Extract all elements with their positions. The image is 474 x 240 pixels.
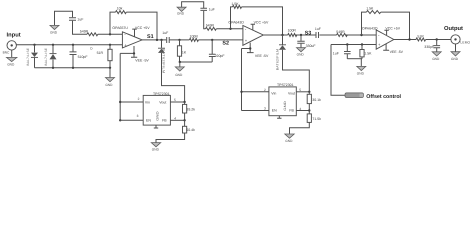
- capacitor C1 1uF (gain network stage1): [69, 18, 83, 22]
- wire U4 EN pin3: [119, 114, 143, 121]
- ground under 330pF: [432, 52, 441, 61]
- wire output stage2 line: [263, 34, 376, 36]
- node dot C510: [72, 44, 74, 46]
- svg-text:1uF: 1uF: [77, 18, 83, 22]
- node dot rail C510: [72, 67, 74, 69]
- svg-text:1uF: 1uF: [315, 27, 321, 31]
- svg-text:LEMO: LEMO: [460, 40, 470, 44]
- capacitor C2 1uF series stage1: [162, 31, 169, 43]
- svg-text:Input: Input: [7, 33, 21, 39]
- wire input line to op-amp +: [16, 44, 122, 46]
- ground top stage2: [177, 7, 186, 15]
- node dot rail: [109, 67, 111, 69]
- svg-text:2: 2: [138, 97, 140, 101]
- wire 549R to op-amp - input: [98, 33, 123, 35]
- connector J1 BNC: [3, 41, 17, 55]
- wire BNC stub to ground: [11, 50, 13, 57]
- output label: [444, 25, 463, 32]
- ground stage1 output shunt: [175, 62, 184, 77]
- svg-text:GND: GND: [357, 72, 365, 76]
- svg-text:60.4k: 60.4k: [186, 128, 195, 132]
- ground U5: [285, 134, 294, 143]
- svg-text:BAT62/FILM: BAT62/FILM: [276, 49, 280, 71]
- svg-text:GND: GND: [432, 57, 440, 61]
- svg-text:71.5k: 71.5k: [312, 117, 321, 121]
- wire output stage3 line: [394, 39, 451, 41]
- capacitor C4 1uF (gain network stage2): [200, 7, 214, 11]
- svg-text:100R: 100R: [190, 35, 199, 39]
- resistor R51 shunt 51R: [97, 45, 113, 68]
- op-amp U1 OPA657U: [112, 26, 150, 120]
- wire rail to ground: [109, 68, 111, 78]
- wire U4 Vout pin5: [170, 98, 184, 102]
- svg-text:VEE -5V: VEE -5V: [135, 58, 149, 62]
- node dot D1: [33, 44, 35, 46]
- resistor R16 71.5k: [307, 111, 321, 123]
- svg-text:GND: GND: [283, 100, 287, 110]
- regulator U5 TPS72301: [269, 83, 296, 116]
- svg-text:GND: GND: [451, 57, 459, 61]
- wire feedback2 right leg: [242, 7, 283, 35]
- op-amp U2 OPA643D: [228, 21, 269, 111]
- svg-text:S2: S2: [222, 40, 229, 46]
- node dot diode leg U4: [183, 101, 185, 103]
- svg-text:S3: S3: [305, 31, 312, 37]
- wire output stage1 line: [142, 39, 189, 41]
- svg-text:VCC +5V: VCC +5V: [254, 21, 269, 25]
- node dot gnd rail: [179, 61, 181, 63]
- node dot clamp1: [160, 39, 162, 41]
- svg-text:10k: 10k: [117, 6, 123, 10]
- svg-text:Vin: Vin: [145, 100, 150, 104]
- op-amp U3 OPA643D: [362, 26, 404, 54]
- node S2 label: [222, 40, 229, 46]
- svg-text:GND: GND: [7, 62, 15, 66]
- ground under BNC: [7, 57, 17, 66]
- wire C4 down to 549R stage2: [204, 11, 206, 29]
- ground under LEMO: [451, 52, 460, 61]
- wire feedback1 right leg to S1: [126, 12, 157, 40]
- svg-text:4: 4: [299, 107, 301, 111]
- wire C1 down to 549R: [73, 21, 88, 35]
- connector offset control: [345, 93, 402, 100]
- resistor R7 1.5K feedback stage2: [231, 2, 241, 8]
- svg-text:Vin: Vin: [271, 92, 276, 96]
- resistor R8 100R series stage2: [288, 29, 297, 37]
- svg-text:4: 4: [174, 117, 176, 121]
- svg-text:39.2k: 39.2k: [186, 107, 195, 111]
- svg-text:BAT62/FILM: BAT62/FILM: [161, 49, 165, 74]
- wire U4 divider to ground: [156, 133, 185, 143]
- wire offset control leg: [331, 45, 345, 96]
- svg-text:1K: 1K: [182, 51, 187, 55]
- svg-text:3: 3: [264, 106, 266, 110]
- diode D3 clamp to VEE: [158, 40, 185, 102]
- node dot R51: [109, 44, 111, 46]
- node dot FB U5: [308, 109, 310, 111]
- svg-text:GND: GND: [105, 83, 113, 87]
- svg-text:VCC +5V: VCC +5V: [135, 26, 150, 30]
- resistor R2 549R stage1: [80, 30, 98, 36]
- capacitor C3 220pF shunt: [209, 40, 225, 62]
- svg-text:VEE -5V: VEE -5V: [390, 50, 404, 54]
- svg-text:BAL74-ISE: BAL74-ISE: [26, 48, 30, 66]
- svg-text:Output: Output: [444, 25, 463, 32]
- svg-text:549R: 549R: [336, 30, 345, 34]
- svg-text:EN: EN: [146, 119, 151, 123]
- wire bias rail: [347, 58, 362, 60]
- node dot feedback3 out: [408, 38, 410, 40]
- svg-text:100R: 100R: [288, 29, 297, 33]
- wire feedback1 left leg: [110, 12, 116, 34]
- resistor R15 30.1k: [307, 92, 321, 111]
- svg-text:GND: GND: [50, 31, 58, 35]
- svg-text:OPA643D: OPA643D: [362, 26, 378, 30]
- svg-text:3: 3: [137, 114, 139, 118]
- node dot feedback2: [229, 28, 231, 30]
- svg-text:30.1k: 30.1k: [312, 98, 321, 102]
- wire ground up and over to C1: [55, 11, 73, 25]
- ground top-left stage1: [50, 25, 59, 34]
- svg-text:GND: GND: [175, 73, 183, 77]
- svg-text:TPS72301: TPS72301: [277, 83, 294, 87]
- wire U5 FB pin4: [296, 107, 309, 111]
- svg-text:BAL74-ISE: BAL74-ISE: [44, 48, 48, 66]
- svg-text:GND: GND: [155, 110, 159, 120]
- svg-text:1uF: 1uF: [209, 7, 215, 11]
- capacitor C5 330uF shunt: [297, 35, 315, 48]
- capacitor C7 1uF bias: [333, 45, 351, 59]
- node dot 330uF: [300, 34, 302, 36]
- resistor R4 1K shunt: [177, 40, 186, 62]
- svg-text:1.5K: 1.5K: [364, 52, 372, 56]
- svg-text:5: 5: [299, 88, 301, 92]
- wire 549R to op-amp2 - input: [216, 28, 243, 30]
- wire shunt rail to 220pF: [180, 61, 213, 63]
- wire U5 divider to ground: [290, 122, 310, 133]
- diode D2 BAL74 (pointing up): [44, 45, 57, 68]
- resistor R3 10k feedback stage1: [116, 6, 127, 13]
- capacitor C510 510pF: [70, 45, 88, 68]
- resistor R5 100R series stage1: [189, 35, 243, 42]
- node dot feedback1: [109, 33, 111, 35]
- node dot R11: [361, 43, 363, 45]
- svg-text:330uF: 330uF: [306, 44, 316, 48]
- svg-text:1.5K: 1.5K: [366, 7, 374, 11]
- svg-text:510pF: 510pF: [78, 55, 88, 59]
- wire U5 Vin pin2: [242, 88, 269, 92]
- U4 gnd pad stub: [154, 125, 158, 128]
- svg-text:EN: EN: [272, 108, 277, 112]
- capacitor C6 1uF series stage3: [315, 27, 321, 38]
- svg-text:51R: 51R: [97, 51, 104, 55]
- svg-text:Vout: Vout: [288, 92, 295, 96]
- resistor R13 39.2k: [183, 102, 196, 120]
- svg-text:51R: 51R: [417, 35, 424, 39]
- svg-text:BNC: BNC: [3, 51, 10, 55]
- svg-text:VEE -5V: VEE -5V: [255, 54, 269, 58]
- resistor R12 51R series output: [416, 35, 426, 42]
- capacitor C8 330pF shunt: [424, 40, 440, 52]
- svg-text:GND: GND: [177, 12, 185, 16]
- ground under 51R: [105, 78, 114, 87]
- wire LEMO stub to ground: [455, 44, 457, 52]
- node dot diode leg U5: [308, 91, 310, 93]
- wire U5 EN pin3: [242, 106, 269, 110]
- svg-text:TPS72301: TPS72301: [153, 92, 170, 96]
- node S2 dot: [211, 39, 213, 41]
- svg-text:220pF: 220pF: [215, 54, 225, 58]
- resistor R11 1.5K bias: [360, 45, 372, 59]
- node S1: [147, 34, 158, 41]
- wire feedback2 left leg: [231, 7, 233, 29]
- node dot VEE U4: [119, 101, 121, 103]
- input label: [7, 33, 21, 39]
- svg-text:1uF: 1uF: [162, 31, 168, 35]
- resistor R10 1.5K feedback stage3: [366, 7, 381, 14]
- node dot 330pF: [436, 38, 438, 40]
- svg-text:Vout: Vout: [159, 100, 166, 104]
- ground bias network: [357, 59, 366, 76]
- wire U5 Vout pin5: [296, 88, 309, 92]
- node label D: [90, 46, 93, 50]
- svg-text:Offset control: Offset control: [366, 94, 401, 100]
- node dot C7: [346, 43, 348, 45]
- wire ground to C4: [182, 2, 204, 8]
- wire feedback3 left leg: [362, 12, 367, 35]
- svg-text:S1: S1: [147, 34, 154, 40]
- wire U4 FB pin4: [170, 117, 184, 121]
- resistor R14 60.4k: [183, 120, 196, 133]
- resistor R6 549R stage2: [206, 24, 217, 31]
- svg-text:GND: GND: [297, 53, 305, 57]
- wire U4 Vin pin2: [120, 97, 143, 102]
- wire bottom rail input clamp: [35, 67, 111, 69]
- svg-text:GND: GND: [152, 147, 160, 151]
- node dot R1K: [178, 39, 180, 41]
- svg-text:330pF: 330pF: [424, 45, 434, 49]
- node dot clamp2: [281, 34, 283, 36]
- node dot D2: [52, 44, 54, 46]
- resistor R9 549R stage3: [336, 30, 347, 37]
- ground under 330uF: [297, 48, 306, 57]
- svg-text:FB: FB: [289, 108, 294, 112]
- node dot FB U4: [183, 119, 185, 121]
- node dot feedback3: [360, 34, 362, 36]
- svg-text:OPA657U: OPA657U: [112, 26, 128, 30]
- svg-text:GND: GND: [285, 139, 293, 143]
- svg-text:FB: FB: [162, 119, 167, 123]
- wire + input line stage3: [331, 44, 376, 46]
- svg-text:549R: 549R: [206, 24, 215, 28]
- node S3 label: [305, 31, 312, 37]
- wire feedback3 right leg: [381, 12, 410, 39]
- svg-text:549R: 549R: [80, 30, 89, 34]
- diode D1 BAL74 (pointing down): [26, 45, 38, 68]
- node dot VEE U5: [240, 91, 242, 93]
- regulator U4 TPS72301: [143, 92, 170, 125]
- node dot rail D2: [52, 67, 54, 69]
- ground U4: [151, 143, 160, 152]
- svg-text:5: 5: [174, 98, 176, 102]
- svg-text:1uF: 1uF: [333, 52, 339, 56]
- svg-text:OPA643D: OPA643D: [228, 21, 244, 25]
- U5 gnd pad stub: [277, 116, 281, 119]
- connector J2 LEMO: [451, 35, 471, 45]
- svg-text:1.5K: 1.5K: [231, 2, 239, 6]
- svg-text:2: 2: [264, 88, 266, 92]
- diode D4 clamp to VEE stage2: [276, 35, 310, 92]
